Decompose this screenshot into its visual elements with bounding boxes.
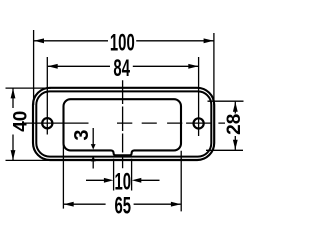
dim 28 extension lines bbox=[206, 101, 244, 150]
arrow 84 right bbox=[188, 64, 198, 69]
arrow 100 left bbox=[34, 38, 44, 43]
dim 100 extension lines bbox=[34, 30, 214, 105]
dim 65 extension lines bbox=[63, 144, 181, 211]
mounting hole left bbox=[42, 118, 52, 128]
svg-text:10: 10 bbox=[115, 169, 132, 195]
arrow 40 bottom bbox=[11, 150, 16, 160]
lens opening with notch bbox=[64, 99, 182, 155]
arrow 65 right bbox=[171, 202, 181, 207]
dim 10 extension lines bbox=[114, 159, 132, 191]
arrow 3 down bbox=[91, 144, 96, 150]
dim 40 line bbox=[12, 88, 14, 160]
mounting hole right bbox=[194, 118, 204, 128]
arrow 28 top bbox=[233, 102, 238, 112]
arrow 28 bottom bbox=[233, 140, 238, 150]
arrow 65 left bbox=[64, 202, 74, 207]
dim 100 line bbox=[34, 40, 214, 42]
arrow 3 up bbox=[91, 156, 96, 162]
dim 65 line bbox=[64, 203, 181, 205]
hole R centerline vertical bbox=[198, 57, 200, 136]
dim 3 line bbox=[92, 128, 94, 169]
vertical centerline bbox=[122, 80, 124, 168]
arrow 10 right bbox=[132, 178, 142, 183]
svg-text:65: 65 bbox=[115, 193, 132, 219]
arrow 84 left bbox=[48, 64, 58, 69]
dim 84 line bbox=[48, 65, 198, 67]
svg-text:3: 3 bbox=[71, 129, 93, 140]
dim 28 line bbox=[234, 102, 236, 150]
dim 10 line bbox=[86, 179, 160, 181]
arrow 100 right bbox=[204, 38, 214, 43]
svg-text:28: 28 bbox=[224, 114, 245, 135]
horizontal centerline bbox=[24, 122, 225, 124]
svg-text:84: 84 bbox=[113, 55, 130, 81]
svg-text:100: 100 bbox=[110, 30, 135, 56]
svg-text:40: 40 bbox=[11, 111, 32, 132]
arrow 10 left bbox=[104, 178, 114, 183]
inner contour housing bbox=[36, 91, 211, 156]
dim 40 extension lines bbox=[6, 88, 52, 160]
outer contour housing bbox=[33, 88, 214, 160]
arrow 40 top bbox=[11, 88, 16, 98]
hole L centerline vertical bbox=[46, 57, 48, 135]
